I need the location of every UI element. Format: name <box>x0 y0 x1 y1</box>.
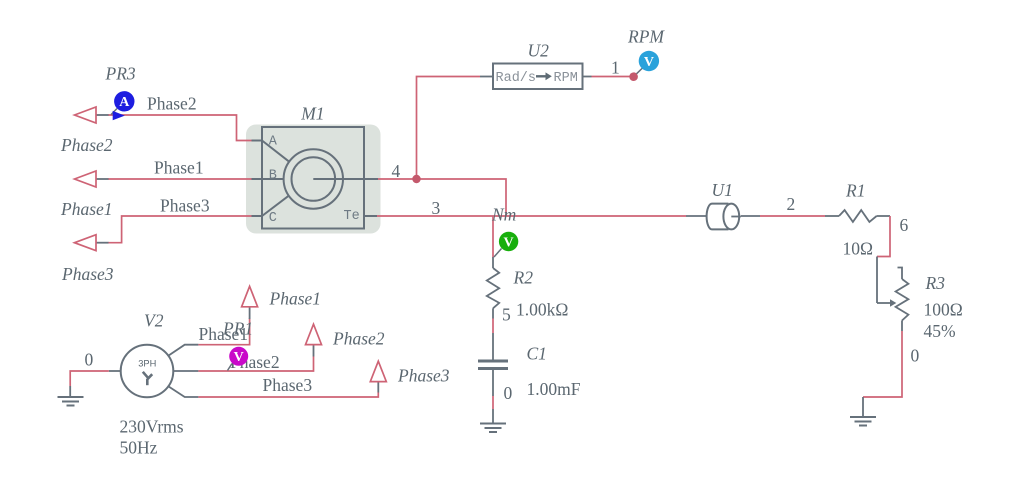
svg-text:Nm: Nm <box>491 205 516 225</box>
three-phase source V2 <box>109 311 199 458</box>
svg-text:Phase3: Phase3 <box>397 366 450 386</box>
svg-text:230Vrms: 230Vrms <box>120 417 184 437</box>
off-page connector Phase3 <box>75 235 109 251</box>
svg-text:1.00kΩ: 1.00kΩ <box>516 300 568 320</box>
svg-text:V2: V2 <box>144 311 164 331</box>
off-page connector Phase2 (up) <box>306 324 385 356</box>
svg-text:50Hz: 50Hz <box>120 438 158 458</box>
svg-text:Phase2: Phase2 <box>147 94 197 114</box>
svg-text:100Ω: 100Ω <box>924 300 963 320</box>
wire Phase2 to M1 pin A <box>108 115 252 141</box>
svg-text:10Ω: 10Ω <box>843 239 874 259</box>
ground (V2) <box>58 386 84 406</box>
wire V2 to Phase1 connector <box>198 318 249 345</box>
svg-text:PR3: PR3 <box>105 64 136 84</box>
svg-text:1.00mF: 1.00mF <box>527 379 581 399</box>
svg-text:6: 6 <box>900 215 909 235</box>
wire node 3 / net Nm <box>377 198 686 258</box>
svg-text:45%: 45% <box>924 321 956 341</box>
svg-text:0: 0 <box>911 346 920 366</box>
voltage probe Nm <box>494 232 518 257</box>
svg-text:U2: U2 <box>528 41 550 61</box>
wire U2 to RPM probe <box>592 58 632 78</box>
svg-text:C1: C1 <box>527 344 547 364</box>
svg-text:Phase3: Phase3 <box>61 264 114 284</box>
svg-text:RPM: RPM <box>627 27 665 47</box>
resistor R1 <box>825 181 909 259</box>
motor M1 <box>246 104 381 234</box>
wire V2 to Phase3 connector <box>198 393 378 398</box>
svg-text:Te: Te <box>344 209 360 224</box>
wire Nm to U1 handled above; coupler U1 <box>686 180 760 229</box>
off-page connector Phase3 (up) <box>370 361 449 392</box>
off-page connector Phase1 <box>75 171 109 187</box>
svg-text:V: V <box>234 350 244 365</box>
svg-text:B: B <box>269 168 277 183</box>
ground (R3) <box>850 397 876 426</box>
svg-text:0: 0 <box>504 383 513 403</box>
svg-text:V: V <box>504 235 514 250</box>
wire U1 to R1 (node 2) <box>760 194 825 216</box>
svg-text:Phase2: Phase2 <box>60 135 113 155</box>
svg-text:R2: R2 <box>513 268 534 288</box>
svg-text:Phase1: Phase1 <box>60 199 113 219</box>
svg-text:2: 2 <box>787 194 796 214</box>
wire node 0 (C1) <box>492 396 494 409</box>
wire R3 to ground (node 0) <box>863 331 920 397</box>
svg-text:R3: R3 <box>925 273 946 293</box>
junction dot node 1 <box>629 72 638 81</box>
svg-text:1: 1 <box>611 58 620 78</box>
wire Phase3 to M1 pin C <box>108 216 252 243</box>
off-page connector Phase1 (up) <box>242 286 321 319</box>
potentiometer R3 <box>877 257 963 342</box>
wire node 4 <box>378 77 506 217</box>
wire V2 to ground (node 0) <box>70 350 109 387</box>
ground (C1) <box>480 409 506 432</box>
svg-text:3: 3 <box>432 198 441 218</box>
capacitor C1 <box>478 333 581 403</box>
resistor R2 <box>487 257 569 325</box>
junction dot node 4 <box>412 175 420 183</box>
svg-text:4: 4 <box>392 161 401 181</box>
off-page connector Phase2 <box>75 107 109 123</box>
converter U2 <box>480 41 592 90</box>
svg-text:Phase3: Phase3 <box>263 375 313 395</box>
svg-text:Phase2: Phase2 <box>332 329 385 349</box>
svg-text:V: V <box>644 55 654 70</box>
svg-text:C: C <box>269 211 277 226</box>
svg-text:Phase1: Phase1 <box>154 158 204 178</box>
wire R1 to R3 wiper (node 6) <box>877 216 890 257</box>
svg-text:A: A <box>269 135 278 150</box>
svg-text:U1: U1 <box>712 180 733 200</box>
voltage probe PR1 <box>228 347 249 371</box>
svg-text:0: 0 <box>85 350 94 370</box>
svg-text:PR1: PR1 <box>222 319 253 339</box>
svg-text:Rad/s: Rad/s <box>496 71 537 86</box>
svg-text:R1: R1 <box>845 181 865 201</box>
voltage probe RPM <box>627 27 665 74</box>
svg-text:M1: M1 <box>300 104 324 124</box>
wire V2 to Phase2 connector <box>198 357 313 372</box>
svg-text:3PH: 3PH <box>138 359 156 369</box>
svg-text:A: A <box>119 95 130 110</box>
svg-text:RPM: RPM <box>554 71 578 86</box>
wire Phase1 to M1 pin B <box>108 178 252 180</box>
wire node 5 <box>492 319 494 334</box>
svg-text:Phase3: Phase3 <box>160 196 210 216</box>
svg-text:5: 5 <box>502 305 511 325</box>
svg-text:Phase1: Phase1 <box>269 289 322 309</box>
current probe PR3 <box>105 64 136 121</box>
